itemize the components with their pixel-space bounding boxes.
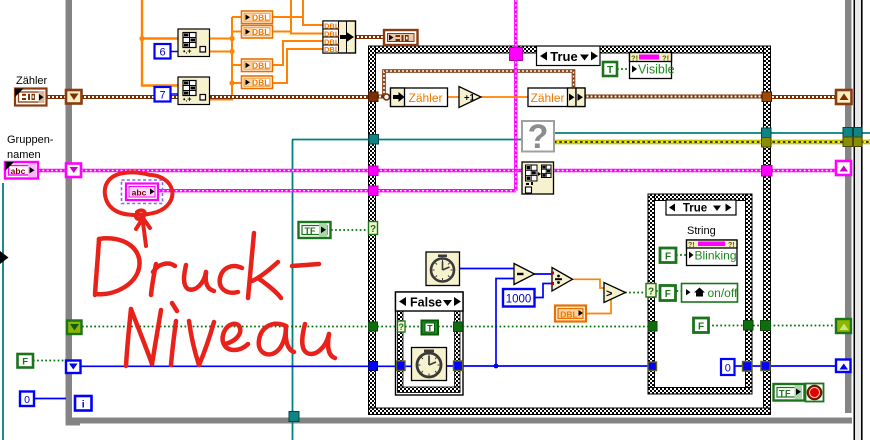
constant 6 — [155, 44, 179, 59]
svg-text:T: T — [427, 323, 433, 333]
wire: teal vertical down left of case — [292, 140, 294, 440]
tunnel: green question case left at TF row — [369, 222, 378, 236]
svg-text:F: F — [22, 357, 28, 368]
shift register right brown — [836, 90, 852, 104]
tunnel: magenta on case top — [510, 48, 523, 61]
svg-text:Visible: Visible — [638, 63, 675, 77]
constant F bottom left — [18, 354, 34, 368]
constant F for on-off — [660, 286, 676, 301]
constant 0 inner case — [721, 359, 735, 375]
terminal Gruppen-namen string control — [5, 162, 38, 179]
wire: brown out of write local to right shift register — [585, 95, 839, 100]
wire: DBL outputs to bundle inputs — [272, 0, 323, 83]
case selector label: False — [396, 292, 464, 311]
wire: blue 1000 to divide — [534, 284, 552, 298]
wire: orange divide to greater — [572, 279, 604, 288]
wire: teal far-left vertical — [2, 183, 4, 440]
svg-text:abc: abc — [11, 166, 26, 176]
tunnel: green case right — [761, 321, 771, 331]
svg-text:>: > — [606, 288, 612, 300]
svg-text:DBL: DBL — [252, 13, 269, 23]
svg-text:DBL: DBL — [252, 27, 269, 37]
wire: green boolean F const to loop edge — [33, 360, 66, 362]
conversion bullet DBL 2 — [242, 26, 273, 39]
svg-text:i: i — [82, 399, 85, 411]
constant F boolean row inner case — [694, 318, 709, 333]
svg-text:0: 0 — [24, 394, 30, 406]
red annotation circle around abc — [105, 172, 173, 215]
wire: teal left segment into ? node — [292, 139, 522, 141]
wire: brown feedback loop over locals — [384, 71, 574, 95]
local variable abc (selected) — [122, 180, 163, 204]
red annotation text Druck- — [95, 233, 319, 298]
wire: orange increment to write local — [481, 96, 528, 98]
wire: index array 2 outputs — [209, 17, 242, 100]
tunnel: brown case left — [369, 92, 379, 102]
conversion bullet DBL 4 — [242, 76, 273, 89]
svg-text:6: 6 — [159, 47, 165, 59]
shift register right green — [836, 319, 851, 333]
while loop left border — [66, 0, 81, 426]
wire: index array 1 outputs to DBL column — [209, 39, 233, 52]
svg-text:abc: abc — [132, 188, 147, 198]
wire: brown wire inside case to local — [377, 94, 391, 100]
indicator numeric cluster 906 — [384, 30, 418, 45]
local variable Zaehler read — [391, 88, 448, 107]
shift register left brown — [66, 90, 82, 104]
svg-text:Blinking: Blinking — [695, 249, 737, 263]
wire: brown main Zaehler array wire — [46, 95, 369, 99]
tick count clock node — [426, 252, 460, 286]
stop button — [806, 384, 824, 402]
conversion bullet DBL 3 — [242, 59, 273, 72]
svg-text:DBL: DBL — [560, 310, 577, 320]
wire: green boolean comparison to inner case — [625, 292, 648, 294]
iteration terminal i — [75, 396, 92, 411]
wire: green boolean T to Visible — [617, 68, 630, 70]
svg-text:1000: 1000 — [506, 294, 532, 306]
local variable Zaehler write — [528, 88, 585, 107]
shift register right blue — [836, 360, 851, 373]
wire: magenta vertical through top tunnel — [514, 0, 517, 191]
svg-text:?!: ?! — [631, 54, 638, 63]
wire: magenta string row 2 from abc local — [158, 189, 516, 192]
svg-text:namen: namen — [7, 149, 41, 161]
inner case structure (True) border — [648, 194, 752, 394]
constant T for Visible — [603, 62, 617, 76]
wire: magenta string row 1 to unbundle node — [81, 169, 522, 172]
property node Visible — [630, 53, 675, 79]
svg-text:DBL: DBL — [324, 45, 340, 54]
wire: orange DBL local to greater — [586, 298, 611, 314]
tunnel: magenta case left row2 — [369, 186, 379, 196]
tunnel: green question False left — [398, 321, 406, 332]
tunnel: blue inner case left — [648, 362, 657, 371]
wire: orange array trunk vertical — [139, 0, 178, 86]
red annotation arrow — [136, 210, 150, 246]
case structure (big, True) border — [369, 46, 771, 415]
svg-text:DBL: DBL — [252, 61, 269, 71]
svg-text:True: True — [683, 203, 707, 215]
svg-text:T: T — [607, 65, 613, 76]
index array node 1 — [178, 29, 210, 57]
tunnel: blue inner case right — [743, 362, 753, 372]
wire: green boolean TF to case tunnel — [331, 229, 369, 231]
wire: magenta string node output to right shift register — [553, 169, 838, 172]
svg-text:?: ? — [399, 322, 405, 332]
tunnel: olive error case right — [762, 138, 772, 148]
tunnel: green question inner case left at comparison row — [646, 284, 656, 298]
svg-text:Zähler: Zähler — [530, 91, 564, 105]
terminal Zaehler numeric array control — [15, 89, 47, 106]
svg-text:0: 0 — [725, 363, 731, 375]
wire: blue clock to subtract — [459, 268, 514, 270]
wire: blue 0 const bottom left — [34, 398, 66, 400]
black wedge left edge — [0, 251, 9, 264]
property node Blinking — [687, 240, 738, 266]
svg-text:?!: ?! — [662, 54, 669, 63]
greater node — [604, 283, 626, 303]
svg-text:?: ? — [648, 287, 654, 298]
tunnel: green False right — [454, 322, 463, 332]
wire: green boolean F to Blinking — [676, 254, 687, 256]
svg-text:▪.+: ▪.+ — [183, 49, 192, 56]
wire: blue vertical branch to subtract — [496, 279, 514, 367]
ring constant on-off — [682, 284, 738, 303]
red annotation text Niveau — [126, 303, 335, 366]
constant 0 bottom left — [20, 392, 34, 407]
string index node — [522, 162, 554, 194]
shift register left magenta — [66, 164, 81, 178]
svg-text:String: String — [687, 225, 716, 237]
tunnel: brown case right — [762, 92, 772, 102]
increment +1 node — [459, 87, 481, 108]
tunnel: magenta case left row1 — [369, 166, 379, 176]
tunnel: green case left boolean row — [369, 322, 378, 331]
svg-text:True: True — [550, 49, 577, 64]
wire: orange local to increment — [448, 96, 459, 98]
svg-text:DBL: DBL — [252, 78, 269, 88]
wire: error cluster yellow-black — [554, 140, 870, 145]
svg-text:TF: TF — [779, 389, 791, 399]
svg-text:F: F — [665, 289, 671, 300]
case structure (False) border — [396, 292, 464, 395]
tunnel: blue False right — [454, 361, 463, 371]
index array node 2 — [178, 77, 210, 105]
bundle node — [323, 21, 356, 54]
svg-text:?: ? — [370, 224, 376, 235]
wire: blue subtract to divide — [534, 273, 552, 275]
constant F for Blinking — [660, 248, 676, 263]
tunnel: teal case right — [762, 128, 772, 138]
tunnel: green inner case right — [744, 321, 754, 331]
svg-text:Gruppen-: Gruppen- — [7, 134, 54, 146]
subtract node — [514, 264, 535, 285]
shift register left green — [67, 321, 82, 335]
constant T inside False case — [422, 321, 439, 335]
constant 1000 — [503, 289, 535, 307]
conversion bullet DBL 1 — [242, 11, 273, 24]
wire: brown cluster from bundle to indicator — [355, 35, 384, 39]
tunnel: magenta case right — [762, 166, 773, 177]
tunnel: blue False left — [397, 361, 406, 371]
wire: teal out of ? node to right edge — [554, 132, 870, 134]
svg-text:?: ? — [528, 118, 549, 156]
tunnel: teal loop right pair — [843, 128, 862, 138]
svg-text:7: 7 — [159, 90, 165, 102]
svg-text:+1: +1 — [464, 93, 476, 104]
local variable DBL read — [555, 306, 586, 322]
label Gruppen-namen — [7, 134, 54, 161]
svg-text:TF: TF — [305, 226, 316, 236]
tunnel: blue case right — [761, 362, 770, 371]
while loop bottom border — [70, 418, 852, 424]
tunnel: olive loop right pair — [843, 137, 862, 147]
svg-text:▪.+: ▪.+ — [183, 97, 192, 104]
case selector label (big case): True — [537, 46, 601, 66]
tunnel: teal loop bottom — [289, 412, 299, 422]
missing node question mark — [522, 118, 554, 156]
wire: green boolean shift register row — [82, 326, 840, 327]
shift register right magenta — [836, 161, 851, 175]
svg-text:F: F — [665, 252, 671, 263]
inner case selector label: True — [666, 200, 736, 215]
svg-text:Zähler: Zähler — [16, 75, 48, 87]
constant 7 — [155, 87, 179, 102]
svg-text:F: F — [698, 322, 704, 333]
svg-text:Zähler: Zähler — [408, 91, 442, 105]
while loop right border — [845, 0, 852, 413]
wire: magenta string from terminal to shift register — [38, 169, 66, 172]
wire: blue 0 const inner case to right shift register — [734, 365, 840, 367]
local variable TF read — [299, 222, 331, 238]
wait ms clock node inside False case — [412, 348, 447, 381]
wire: blue i32 main row — [80, 364, 652, 369]
shift register left blue — [66, 361, 81, 374]
tunnel: teal case left — [369, 135, 379, 145]
tunnel: blue case left — [369, 362, 378, 371]
window scrollbar edge — [854, 0, 863, 440]
svg-text:False: False — [410, 296, 442, 310]
divide node — [551, 268, 573, 292]
wire: green boolean F to on-off — [656, 290, 682, 292]
tunnel: green inner case left — [648, 322, 657, 332]
terminal TF stop — [774, 384, 805, 401]
svg-text:on/off: on/off — [708, 286, 738, 300]
